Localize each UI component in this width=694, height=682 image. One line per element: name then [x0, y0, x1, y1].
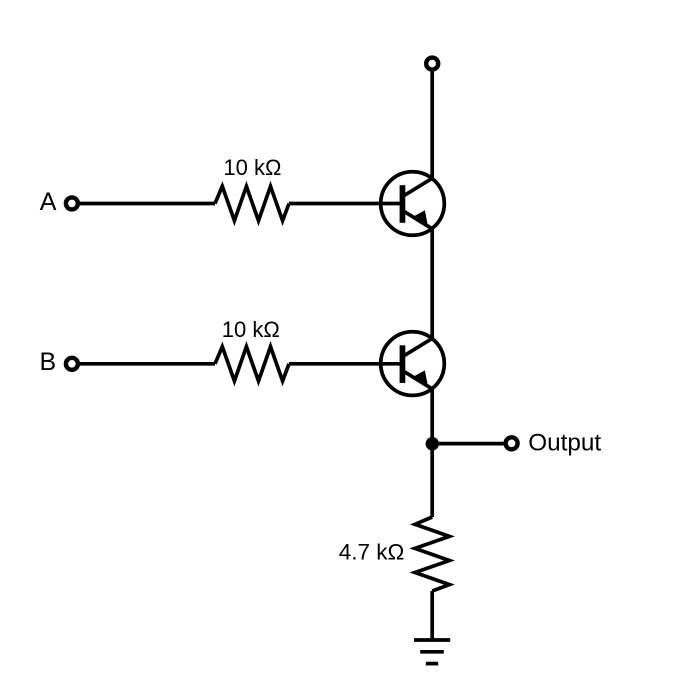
wire Q2 emitter to output junction	[430, 388, 434, 444]
junction output node	[426, 437, 439, 450]
terminal VCC	[426, 58, 438, 70]
wire B to R2	[79, 362, 215, 366]
transistor Q1	[381, 172, 445, 236]
resistor R1 10k	[215, 186, 289, 220]
svg-text:B: B	[40, 348, 57, 376]
node B	[66, 358, 78, 370]
terminal Output	[506, 437, 518, 449]
wire VCC to Q1 collector	[430, 70, 434, 180]
svg-text:10 kΩ: 10 kΩ	[222, 317, 280, 342]
ground	[414, 640, 450, 664]
wire R3 to ground	[430, 591, 434, 640]
wire R1 to Q1 base	[289, 202, 401, 206]
wire R2 to Q2 base	[289, 362, 401, 366]
svg-text:10 kΩ: 10 kΩ	[223, 155, 281, 180]
resistor R3 4.7k	[415, 517, 449, 591]
svg-text:A: A	[40, 188, 57, 216]
wire junction to R3	[430, 444, 434, 517]
wire junction to output terminal	[432, 442, 505, 446]
svg-text:4.7 kΩ: 4.7 kΩ	[339, 539, 405, 564]
wire Q1 emitter to Q2 collector	[430, 228, 434, 340]
node A	[66, 197, 78, 209]
svg-text:Output: Output	[528, 430, 601, 457]
wire A to R1	[79, 202, 215, 206]
transistor Q2	[381, 332, 445, 396]
resistor R2 10k	[215, 347, 289, 381]
